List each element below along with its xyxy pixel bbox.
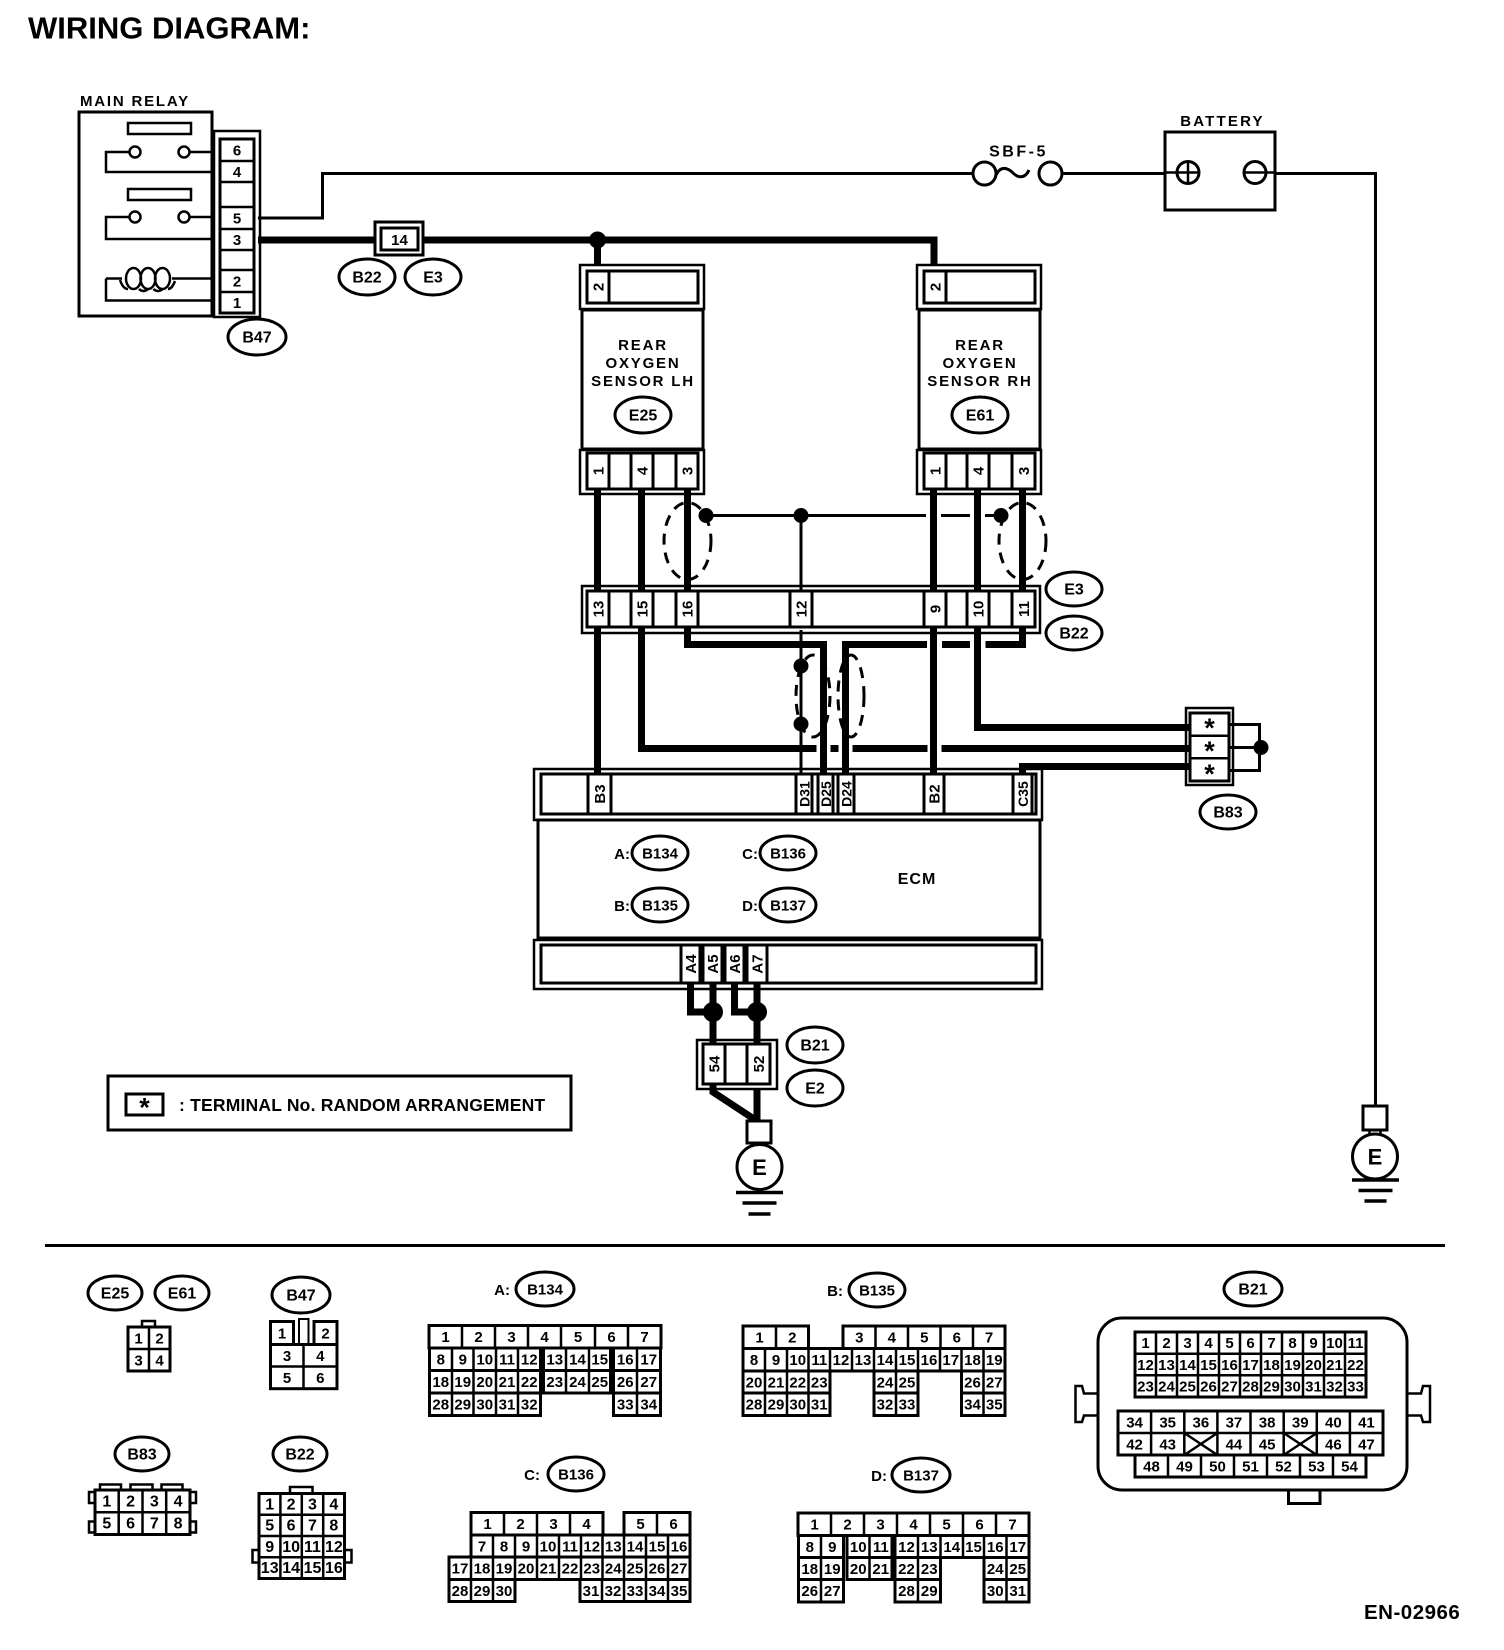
main relay contact bar 1 [128,123,191,134]
svg-text:11: 11 [562,1538,578,1555]
svg-text:8: 8 [806,1539,814,1556]
svg-text:7: 7 [478,1538,486,1555]
junction: D31 wire shield node lower [794,717,809,732]
E2 ellipse label [787,1070,843,1106]
svg-text:26: 26 [1200,1378,1217,1395]
svg-text:5: 5 [102,1516,111,1533]
B136 connector face [449,1513,690,1602]
svg-text:7: 7 [640,1329,648,1346]
svg-text:35: 35 [671,1583,688,1600]
junction: A4/A5 node [703,1002,723,1022]
B21 pin grid rows 1-33 [1135,1332,1366,1397]
main relay contact points 1 (pins 6/4) [106,147,213,173]
B: B135 label [827,1273,905,1307]
svg-text:5: 5 [265,1518,274,1535]
svg-text:6: 6 [669,1516,677,1533]
wire: pin 54 diagonal joining pin 52 lead [713,1085,757,1121]
svg-text:5: 5 [233,210,241,227]
svg-text:3: 3 [680,467,697,475]
svg-text:B21: B21 [800,1038,829,1055]
svg-text:3: 3 [134,1352,142,1369]
svg-text:4: 4 [1204,1335,1213,1352]
svg-text:3: 3 [150,1493,159,1510]
svg-text:A4: A4 [683,954,700,974]
svg-text:28: 28 [746,1397,763,1414]
wire: B22 pin 12 to ECM D31 with shield nodes [800,630,803,775]
LH sensor bottom connector pins 1 4 3 [587,453,698,489]
svg-text:41: 41 [1358,1414,1375,1431]
svg-text:SENSOR LH: SENSOR LH [591,373,695,390]
svg-text:21: 21 [872,1561,889,1578]
svg-text:9: 9 [772,1352,780,1369]
E61 ellipse (legend row) [155,1276,209,1310]
svg-text:32: 32 [605,1583,622,1600]
svg-text:5: 5 [283,1370,291,1387]
svg-text:36: 36 [1193,1414,1210,1431]
svg-text:52: 52 [1275,1458,1292,1475]
svg-text:26: 26 [801,1583,818,1600]
B47 connector face [271,1319,338,1389]
ECM pin A4 [681,945,700,983]
svg-text:1: 1 [265,1496,274,1513]
ECM top connector outer [534,769,1042,820]
RH sensor top connector pin 2 [924,271,1035,303]
svg-text:15: 15 [899,1352,916,1369]
svg-text:8: 8 [750,1352,758,1369]
svg-text:8: 8 [174,1516,183,1533]
ECM top connector inner row [541,774,1036,814]
svg-text:6: 6 [233,142,241,159]
svg-text:12: 12 [1137,1357,1154,1374]
svg-text:B135: B135 [859,1283,895,1300]
svg-text:7: 7 [150,1516,159,1533]
svg-text:B47: B47 [286,1288,315,1305]
svg-text:28: 28 [898,1583,915,1600]
svg-text:25: 25 [1009,1561,1026,1578]
B21/E2 connector pins 54 52 [703,1044,770,1084]
ECM pin C35 [1013,774,1032,814]
svg-text:6: 6 [126,1516,135,1533]
svg-text:31: 31 [1009,1583,1026,1600]
svg-text:16: 16 [987,1539,1004,1556]
svg-text:26: 26 [649,1561,666,1578]
B83 connector pins (random arrangement) [1190,713,1229,789]
svg-text:2: 2 [287,1496,296,1513]
svg-text:16: 16 [671,1538,688,1555]
svg-text:*: * [1204,759,1215,789]
B22/E3 connector row pins 13 15 16 12 9 10 11 [587,591,1035,627]
svg-text:22: 22 [562,1561,579,1578]
svg-text:4: 4 [329,1496,338,1513]
wire: relay pin 5 to SBF-5 fuse (ignition feed) [258,174,973,219]
svg-text:REAR: REAR [618,337,668,354]
svg-text:17: 17 [1009,1539,1026,1556]
svg-text:53: 53 [1308,1458,1325,1475]
svg-text:A5: A5 [705,954,722,973]
svg-text:25: 25 [627,1561,644,1578]
svg-text:B:: B: [614,898,630,915]
battery body [1165,132,1275,210]
svg-text:A6: A6 [727,954,744,973]
svg-text:4: 4 [971,466,988,475]
svg-text:B21: B21 [1238,1282,1267,1299]
svg-text:22: 22 [789,1374,806,1391]
svg-text:26: 26 [964,1374,981,1391]
E3 ellipse label (near 14) [405,259,461,295]
wire: shield interconnect between sensors (thin) [705,514,999,517]
svg-text:50: 50 [1209,1458,1226,1475]
svg-text:18: 18 [801,1561,818,1578]
B47 ellipse label [228,319,286,355]
svg-text:22: 22 [898,1561,915,1578]
wire: shield drop to B22 pin 12 [800,516,803,593]
battery negative terminal [1244,162,1275,184]
svg-text:2: 2 [788,1330,796,1347]
svg-text:D:: D: [742,898,758,915]
svg-text:3: 3 [549,1516,557,1533]
svg-text:1: 1 [755,1330,763,1347]
ECM connector label A: B134 [614,836,688,870]
svg-text:1: 1 [233,295,241,312]
svg-text:33: 33 [627,1583,644,1600]
svg-text:52: 52 [751,1056,768,1073]
wire: B83 pins commoned on right side [1229,725,1260,771]
D: B137 label [871,1458,950,1492]
svg-text:E3: E3 [1064,582,1084,599]
wire: relay pin 3 thick supply bus to both oxygen sensors pin 2 [258,240,934,266]
svg-text:B22: B22 [1059,626,1088,643]
wire: ECM A7 down to connector pin 52 [754,983,761,1045]
svg-text:22: 22 [521,1374,538,1391]
svg-text:WIRING DIAGRAM:: WIRING DIAGRAM: [28,11,310,46]
svg-text:2: 2 [155,1330,163,1347]
svg-text:8: 8 [437,1352,445,1369]
svg-text:28: 28 [452,1583,469,1600]
svg-text:3: 3 [283,1348,291,1365]
svg-text:E25: E25 [101,1286,130,1303]
svg-text:E61: E61 [168,1286,197,1303]
ground E (right) [1352,1130,1399,1201]
svg-text:30: 30 [987,1583,1004,1600]
RH sensor bottom connector pins 1 4 3 [924,453,1035,489]
A: B134 label [494,1272,574,1306]
svg-text:2: 2 [843,1517,851,1534]
svg-text:22: 22 [1347,1357,1364,1374]
svg-text:20: 20 [1305,1357,1322,1374]
svg-text:29: 29 [1263,1378,1280,1395]
svg-text:11: 11 [873,1539,889,1556]
svg-text:23: 23 [1137,1378,1154,1395]
svg-text:2: 2 [516,1516,524,1533]
svg-text:16: 16 [1221,1357,1238,1374]
joint connector 14 outer [375,222,423,255]
svg-text:C:: C: [742,846,758,863]
svg-text:B136: B136 [558,1467,594,1484]
svg-text:D25: D25 [818,781,834,807]
svg-text:18: 18 [964,1352,981,1369]
svg-text:18: 18 [432,1374,449,1391]
svg-text:C35: C35 [1015,781,1031,807]
svg-text:32: 32 [877,1397,894,1414]
svg-text:13: 13 [591,601,608,618]
svg-text:28: 28 [1242,1378,1259,1395]
svg-text:47: 47 [1358,1436,1375,1453]
main relay connector B47 outer [214,131,260,317]
svg-text:B134: B134 [527,1282,564,1299]
B22/E3 connector row outer [582,586,1040,633]
junction: D31 wire shield node upper [794,659,809,674]
separator line [45,1244,1445,1247]
svg-text:19: 19 [824,1561,841,1578]
shield: RH sensor cable shield (dashed) [999,503,1046,580]
svg-text:13: 13 [855,1352,872,1369]
svg-text:14: 14 [569,1352,586,1369]
svg-text:9: 9 [522,1538,530,1555]
svg-text:17: 17 [452,1561,469,1578]
svg-text:13: 13 [546,1352,563,1369]
svg-text:1: 1 [134,1330,142,1347]
svg-text:35: 35 [986,1397,1003,1414]
svg-text:16: 16 [921,1352,938,1369]
svg-text:14: 14 [877,1352,894,1369]
battery label [1180,113,1265,130]
wire: pin 52 down to ground E2 [754,1089,761,1122]
svg-text:1: 1 [483,1516,491,1533]
svg-text:25: 25 [899,1374,916,1391]
svg-text:14: 14 [943,1539,960,1556]
main relay contact bar 2 [128,189,191,200]
B135 connector face [743,1326,1005,1416]
B21 connector shell [1076,1318,1431,1504]
svg-text:C:: C: [524,1467,540,1484]
svg-text:12: 12 [898,1539,915,1556]
svg-text:38: 38 [1259,1414,1276,1431]
ECM pin D31 [796,774,813,814]
svg-text:13: 13 [1158,1357,1175,1374]
B134 connector face [429,1326,661,1416]
svg-text:4: 4 [174,1493,183,1510]
svg-text:D24: D24 [839,781,855,807]
svg-text:21: 21 [499,1374,516,1391]
svg-text:27: 27 [824,1583,841,1600]
svg-text:4: 4 [888,1330,897,1347]
svg-text:11: 11 [304,1539,321,1556]
svg-text:B134: B134 [642,846,679,863]
svg-text:29: 29 [921,1583,938,1600]
ECM pin B3 [588,774,611,814]
svg-text:B137: B137 [770,898,806,915]
svg-text:31: 31 [811,1397,828,1414]
svg-text:15: 15 [965,1539,982,1556]
wire: RH sensor pin 1 to B22 pin 9 to ECM B2 [930,489,937,775]
svg-text:5: 5 [574,1329,582,1346]
svg-text:7: 7 [1267,1335,1275,1352]
svg-text:54: 54 [707,1055,724,1072]
svg-text:29: 29 [768,1397,785,1414]
svg-text:24: 24 [987,1561,1004,1578]
svg-text:23: 23 [583,1561,600,1578]
wire: branch down to LH sensor pin 2 [594,240,601,266]
svg-text:10: 10 [850,1539,867,1556]
svg-text:5: 5 [636,1516,644,1533]
svg-text:B22: B22 [352,270,381,287]
svg-text:49: 49 [1176,1458,1193,1475]
svg-text:39: 39 [1292,1414,1309,1431]
svg-text:9: 9 [459,1352,467,1369]
svg-text:15: 15 [1200,1357,1217,1374]
svg-text:14: 14 [1179,1357,1196,1374]
B22 ellipse (bottom) [273,1437,327,1471]
svg-text:E2: E2 [805,1081,825,1098]
svg-text:1: 1 [278,1326,286,1343]
B83 ellipse label [1200,795,1256,829]
B83 ellipse (bottom) [115,1437,169,1471]
svg-text:2: 2 [928,283,945,291]
svg-text:4: 4 [635,466,652,475]
svg-text:12: 12 [794,601,811,618]
shield: D24 cable shield (dashed) [838,655,864,737]
svg-text:9: 9 [265,1539,274,1556]
ECM pin D25 [818,774,834,814]
svg-text:19: 19 [1284,1357,1301,1374]
ECM pin A6 [725,945,744,983]
ground E (center) [736,1143,783,1214]
svg-text:23: 23 [921,1561,938,1578]
svg-text:30: 30 [1284,1378,1301,1395]
svg-text:B135: B135 [642,898,678,915]
svg-text:12: 12 [833,1352,850,1369]
B21/E2 connector outer [697,1040,777,1089]
svg-text:27: 27 [671,1561,688,1578]
svg-text:8: 8 [500,1538,508,1555]
svg-text:31: 31 [499,1397,516,1414]
svg-text:20: 20 [518,1561,535,1578]
wire: ECM C35 to B83 bottom pin [1023,767,1192,778]
ECM pin A5 [703,945,722,983]
svg-text:7: 7 [308,1518,317,1535]
svg-text:27: 27 [1221,1378,1238,1395]
svg-text:9: 9 [828,1539,836,1556]
svg-text:20: 20 [476,1374,493,1391]
svg-text:A:: A: [494,1282,510,1299]
wire: LH sensor pin 1 to B22 pin 13 to ECM B3 [594,489,601,775]
B83 connector outer [1186,708,1233,785]
svg-text:A:: A: [614,846,630,863]
svg-text:BATTERY: BATTERY [1180,113,1265,130]
svg-text:4: 4 [540,1329,549,1346]
svg-text:B136: B136 [770,846,806,863]
svg-text:10: 10 [1326,1335,1343,1352]
ECM body [538,820,1040,938]
svg-text:32: 32 [521,1397,538,1414]
svg-text:13: 13 [921,1539,938,1556]
B21 pin grid row 48-54 [1135,1455,1366,1477]
svg-text:25: 25 [591,1374,608,1391]
RH sensor bottom connector outer [917,450,1041,494]
main relay connector B47 pin column [220,139,254,313]
figure number EN-02966 [1364,1601,1460,1624]
svg-text:: TERMINAL No. RANDOM ARRANGEM: : TERMINAL No. RANDOM ARRANGEMENT [179,1095,545,1115]
main relay body [79,112,212,316]
LH sensor bottom connector outer [580,450,704,494]
wire: RH sensor pin 4 to B22 pin 10 then right to B83 top pin [978,489,1192,728]
LH sensor top connector pin 2 [587,271,698,303]
wire: ECM A5 down to connector pin 54 [710,983,717,1045]
LH sensor top connector outer [580,265,704,309]
svg-text:8: 8 [1288,1335,1296,1352]
svg-text:34: 34 [1126,1414,1143,1431]
svg-text:34: 34 [640,1397,657,1414]
svg-text:REAR: REAR [955,337,1005,354]
junction: shield node LH [699,508,714,523]
svg-text:E25: E25 [629,408,658,425]
svg-text:6: 6 [316,1370,324,1387]
svg-text:1: 1 [102,1493,111,1510]
svg-text:4: 4 [316,1348,325,1365]
svg-text:43: 43 [1159,1436,1176,1453]
svg-text:15: 15 [591,1352,608,1369]
svg-text:46: 46 [1325,1436,1342,1453]
B22 ellipse label (near 14) [339,259,395,295]
svg-text:17: 17 [640,1352,657,1369]
svg-text:44: 44 [1226,1436,1243,1453]
svg-text:*: * [139,1093,150,1123]
ECM connector label C: B136 [742,836,816,870]
B137 connector face [798,1513,1029,1602]
svg-text:4: 4 [155,1352,164,1369]
svg-text:9: 9 [1309,1335,1317,1352]
svg-text:6: 6 [953,1330,961,1347]
legend: terminal no. random arrangement [108,1076,571,1130]
svg-text:37: 37 [1226,1414,1243,1431]
svg-text:40: 40 [1325,1414,1342,1431]
svg-text:51: 51 [1242,1458,1259,1475]
svg-text:18: 18 [1263,1357,1280,1374]
svg-text:6: 6 [287,1518,296,1535]
rear oxygen sensor RH body [919,310,1040,449]
svg-text:10: 10 [282,1539,300,1556]
wire: LH sensor pin 3 to B22 pin 16 then to ECM D25 [688,489,824,775]
svg-text:2: 2 [321,1326,329,1343]
svg-text:14: 14 [627,1538,644,1555]
svg-text:17: 17 [1242,1357,1259,1374]
svg-text:17: 17 [942,1352,959,1369]
svg-text:29: 29 [474,1583,491,1600]
svg-text:E: E [752,1155,767,1180]
wire: LH sensor pin 4 to B22 pin 15 then right to B83 middle pin [642,489,1192,749]
junction: shield node mid [794,508,809,523]
svg-text:2: 2 [233,273,241,290]
RH sensor top connector outer [917,265,1041,309]
svg-text:15: 15 [649,1538,666,1555]
main relay label [80,93,190,110]
svg-text:11: 11 [811,1352,827,1369]
svg-text:10: 10 [971,601,988,618]
svg-text:10: 10 [476,1352,493,1369]
svg-text:30: 30 [496,1583,513,1600]
svg-text:31: 31 [1305,1378,1322,1395]
main relay coil [106,268,213,301]
svg-text:33: 33 [1347,1378,1364,1395]
svg-text:1: 1 [441,1329,449,1346]
rear oxygen sensor LH body [582,310,703,449]
svg-text:2: 2 [126,1493,135,1510]
ECM connector label B: B135 [614,888,688,922]
wire: ECM A4 joins A5 [691,983,707,1012]
svg-text:4: 4 [233,164,242,181]
svg-text:SBF-5: SBF-5 [989,144,1048,161]
svg-text:28: 28 [432,1397,449,1414]
